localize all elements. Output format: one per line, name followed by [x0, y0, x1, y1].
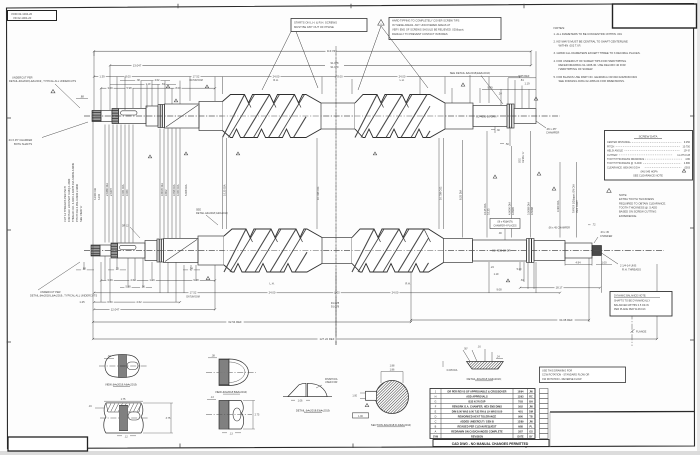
upper screw end shaft [514, 109, 536, 124]
svg-text:R.H. THREADS: R.H. THREADS [622, 267, 641, 271]
svg-text:.72: .72 [592, 224, 596, 227]
detail D [219, 401, 229, 430]
svg-text:BALANCED WITHIN 0.5 OZ-IN: BALANCED WITHIN 0.5 OZ-IN [614, 304, 649, 307]
dim arrow ticks [93, 50, 95, 52]
lower screw relief rings [157, 239, 164, 262]
svg-text:VOID 02-1004-20: VOID 02-1004-20 [11, 12, 33, 16]
svg-text:10/94: 10/94 [518, 390, 525, 393]
svg-text:ADDED UNDERCUT / GEN B: ADDED UNDERCUT / GEN B [460, 420, 494, 423]
detail E dome [288, 383, 306, 396]
leaders from hard tipping note [358, 26, 381, 90]
svg-text:1.75: 1.75 [121, 398, 126, 401]
border zone tick marks [7, 117, 12, 119]
lower screw end shaft [565, 243, 592, 258]
svg-text:3.240: 3.240 [98, 193, 101, 200]
svg-text:R.H.: R.H. [405, 282, 411, 286]
svg-text:DETAIL &#x2018;E&#x2019;: DETAIL &#x2018;E&#x2019; [296, 408, 331, 412]
svg-text:STARTS ON L.H. & R.H. SCREWS: STARTS ON L.H. & R.H. SCREWS [294, 20, 337, 24]
svg-text:.81: .81 [520, 279, 524, 282]
svg-text:2.75: 2.75 [255, 414, 260, 417]
svg-text:3.09: 3.09 [107, 86, 113, 90]
svg-text:4.060 DIA: 4.060 DIA [176, 184, 180, 196]
upper screw spline block 1 [92, 111, 101, 122]
svg-text:CAD DWG - NO MANUAL CHANGES: CAD DWG - NO MANUAL CHANGES PERMITTED [452, 442, 529, 446]
upper dim row 2 [110, 83, 176, 85]
svg-text:USED FOR: USED FOR [325, 381, 338, 384]
svg-text:10.750: 10.750 [683, 145, 691, 148]
upper screw shaft seg 5 [146, 106, 158, 126]
svg-text:.88: .88 [82, 267, 86, 271]
svg-text:VERY END OF SCREWS SHOULD BE R: VERY END OF SCREWS SHOULD BE RELIEVED .0… [392, 27, 464, 31]
svg-text:.06 x 45°: .06 x 45° [546, 127, 557, 131]
svg-text:12.047: 12.047 [111, 307, 120, 311]
between-screw extension lines [104, 125, 106, 243]
svg-text:8.00: 8.00 [337, 75, 343, 79]
svg-text:5.98: 5.98 [126, 86, 132, 90]
svg-text:4.680: 4.680 [684, 162, 691, 165]
svg-text:CHAMFER 4 PLACES: CHAMFER 4 PLACES [494, 225, 517, 228]
svg-text:ADD APPROVALS: ADD APPROVALS [466, 395, 488, 398]
upper screw centerline overlay [84, 115, 560, 117]
svg-text:24.00: 24.00 [399, 75, 406, 79]
svg-text:RADIALLY TO PREVENT CONTACT IN: RADIALLY TO PREVENT CONTACT IN BORES [392, 32, 448, 36]
svg-text:CHAMFER: CHAMFER [546, 131, 559, 135]
svg-text:4.62: 4.62 [130, 278, 136, 282]
svg-text:19°-8': 19°-8' [684, 150, 691, 153]
upper screw rings right [507, 104, 514, 128]
svg-text:.81: .81 [161, 83, 165, 86]
svg-text:SCREW DATA: SCREW DATA [639, 135, 658, 139]
dim 127.22 REF [93, 338, 657, 340]
bottom-left empty box [8, 437, 88, 451]
svg-text:USE THIS DRAWING FOR: USE THIS DRAWING FOR [542, 370, 572, 373]
svg-text:3.125 DIA: 3.125 DIA [483, 203, 487, 215]
upper screw marked shaft [473, 106, 507, 127]
svg-text:CUT 12 THREADS PER INCH: CUT 12 THREADS PER INCH [63, 186, 67, 222]
svg-text:11/93: 11/93 [518, 395, 525, 398]
lower screw body right [444, 239, 473, 263]
svg-text:1.00: 1.00 [601, 260, 607, 264]
svg-text:5.98: 5.98 [125, 284, 131, 288]
svg-text:1.19: 1.19 [146, 83, 151, 86]
svg-text:6.00: 6.00 [107, 300, 113, 304]
svg-text:7/93: 7/93 [518, 400, 523, 403]
svg-text:6/88: 6/88 [518, 425, 523, 428]
svg-text:1.19: 1.19 [149, 278, 155, 282]
svg-text:3.75: 3.75 [166, 417, 171, 420]
lower screw flight section 1 [224, 229, 322, 272]
svg-text:REWORKED HEAT TOLERANCE: REWORKED HEAT TOLERANCE [458, 415, 497, 418]
svg-text:VIEW &#x2018;B&#x2019;: VIEW &#x2018;B&#x2019; [215, 390, 247, 394]
svg-text:L.H.: L.H. [270, 282, 275, 286]
svg-text:MUST BE 180° OUT OF PHASE: MUST BE 180° OUT OF PHASE [294, 25, 334, 29]
dynamic balance note box [610, 292, 672, 317]
svg-text:1.88: 1.88 [390, 364, 395, 367]
svg-text:.06: .06 [141, 284, 145, 288]
svg-text:17.52: 17.52 [193, 75, 200, 79]
svg-text:CUTTER: CUTTER [607, 154, 617, 157]
svg-text:G: G [435, 400, 437, 403]
svg-text:NOTES:: NOTES: [554, 26, 566, 30]
svg-text:3.8035 DIA: 3.8035 DIA [160, 183, 164, 196]
lower screw rings right [527, 239, 535, 263]
svg-text:EXPERIENCE.: EXPERIENCE. [619, 214, 637, 218]
svg-text:24.00: 24.00 [392, 291, 399, 295]
svg-text:DIM 8.00 WAS 9.00 7.82 RH & LH: DIM 8.00 WAS 9.00 7.82 RH & LH WAS 8.00 [452, 410, 503, 413]
svg-text:10.708 O.D.: 10.708 O.D. [316, 186, 320, 200]
upper screw flight section 2 [355, 95, 445, 138]
svg-text:UNDERCUT PER: UNDERCUT PER [12, 75, 33, 79]
svg-text:1.00: 1.00 [352, 395, 357, 398]
svg-text:2 1/4-14 UNS: 2 1/4-14 UNS [620, 264, 636, 268]
svg-text:8.25 DIA: 8.25 DIA [458, 190, 462, 200]
svg-text:.50: .50 [505, 143, 509, 146]
vertical extension lines above upper screw [93, 51, 95, 110]
svg-text:NOTE:: NOTE: [619, 193, 627, 197]
svg-text:2.9480 DIA: 2.9480 DIA [105, 183, 109, 196]
svg-text:REWORK O.A. CHAMFER, HEX END D: REWORK O.A. CHAMFER, HEX END DIMS [452, 405, 502, 408]
svg-text:TOOTH THICKNESS @ .5 ADD: TOOTH THICKNESS @ .5 ADD [607, 162, 642, 165]
lower screw spline block 2 [111, 243, 118, 258]
svg-text:.24: .24 [189, 267, 193, 271]
svg-text:0.005 DIA: 0.005 DIA [447, 369, 458, 372]
svg-text:HARDTIPPING OF SCREW.: HARDTIPPING OF SCREW. [559, 67, 594, 71]
svg-text:.03 x 45: .03 x 45 [600, 231, 610, 234]
svg-text:5.25 REF: 5.25 REF [519, 74, 530, 78]
svg-text:EXTRA TOOTH THICKNESS: EXTRA TOOTH THICKNESS [619, 197, 654, 201]
svg-text:CHAMFER: CHAMFER [600, 235, 613, 238]
svg-text:SHAFTS TO BE DYNAMICALLY: SHAFTS TO BE DYNAMICALLY [614, 300, 650, 303]
svg-text:SEE DETAIL &#x2018;E&#x2019;: SEE DETAIL &#x2018;E&#x2019; [450, 71, 491, 75]
dim line 13.047 / 91.078 [110, 64, 531, 66]
svg-text:1. ALL DIAMETERS TO BE CONCENT: 1. ALL DIAMETERS TO BE CONCENTRIC WITHIN… [554, 32, 623, 36]
svg-text:THREAD O.D. 3.3415-1.33075 DIA: THREAD O.D. 3.3415-1.33075 DIA 3.8639-3.… [71, 162, 75, 222]
svg-text:PER FOOT: PER FOOT [576, 200, 579, 213]
svg-text:.38: .38 [136, 79, 140, 82]
svg-text:91.079: 91.079 [331, 65, 339, 69]
dim 64.08 REF [411, 319, 589, 321]
svg-text:HELIX ANGLE: HELIX ANGLE [607, 150, 623, 153]
svg-text:4.62: 4.62 [155, 79, 160, 82]
svg-text:2. KEYWAYS MUST BE CENTRAL TO: 2. KEYWAYS MUST BE CENTRAL TO SHAFT CENT… [554, 39, 629, 43]
svg-text:VD 02-1004-20: VD 02-1004-20 [13, 16, 32, 20]
svg-text:H: H [435, 395, 437, 398]
svg-text:5. FOR BLANKS USE PART NO. GE4: 5. FOR BLANKS USE PART NO. GE40931G OR #… [554, 75, 638, 79]
upper screw keyway shaft [119, 109, 147, 124]
svg-text:FOR HALF LOCKNUT 3.34Q-1.3300: FOR HALF LOCKNUT 3.34Q-1.3300 [67, 178, 71, 222]
svg-text:.06 x 45 CHAMFER: .06 x 45 CHAMFER [548, 227, 570, 230]
svg-text:127.22 REF: 127.22 REF [320, 337, 335, 341]
svg-text:.88: .88 [80, 95, 84, 99]
bottom-right title block [550, 411, 695, 414]
svg-text:CCW ROTATION - STANDARD FLOW O: CCW ROTATION - STANDARD FLOW OR [542, 374, 590, 377]
svg-text:TOOTH THICKNESS DRAWINGS: TOOTH THICKNESS DRAWINGS [607, 158, 644, 161]
svg-text:WITHIN .002 T.I.R.: WITHIN .002 T.I.R. [559, 43, 582, 47]
hard tipping note box [389, 18, 501, 40]
lower screw marked shaft [473, 240, 527, 261]
svg-text:3. GRIND ALL DIAMETERS EXCEPT: 3. GRIND ALL DIAMETERS EXCEPT THREE TO 3… [554, 51, 641, 55]
svg-text:3.2480 DIA: 3.2480 DIA [94, 188, 97, 200]
svg-text:12/89: 12/89 [518, 420, 525, 423]
lower dim rows left [76, 269, 94, 271]
svg-text:3.998 DIA: 3.998 DIA [172, 184, 176, 196]
svg-text:DR 12: DR 12 [122, 226, 129, 228]
VOID label box top-left [8, 11, 57, 21]
svg-text:24.00: 24.00 [269, 291, 276, 295]
svg-text:SEE CLEARANCE NOTE: SEE CLEARANCE NOTE [633, 174, 663, 178]
svg-text:L.H.: L.H. [400, 78, 405, 82]
vertical extension lines below lower screw [83, 262, 85, 270]
svg-text:PER PLANE PER W-08.013: PER PLANE PER W-08.013 [614, 308, 646, 311]
svg-text:BY: BY [529, 436, 533, 438]
svg-text:3.09: 3.09 [107, 278, 113, 282]
upper keyway slot [121, 111, 138, 115]
svg-text:.30: .30 [496, 129, 500, 132]
svg-text:64.08 REF: 64.08 REF [559, 318, 573, 322]
svg-text:DETAIL &#x2018;G&#x2019;: DETAIL &#x2018;G&#x2019; [467, 377, 502, 381]
svg-text:3.123: 3.123 [486, 208, 490, 215]
lower screw spline block 1 [91, 245, 100, 256]
svg-text:REVISED PER CLEAN REQUEST: REVISED PER CLEAN REQUEST [458, 425, 497, 428]
dim 62.54 REF [93, 321, 411, 323]
svg-text:DYNAMIC BALANCE NOTE:: DYNAMIC BALANCE NOTE: [614, 295, 647, 298]
svg-text:5/92: 5/92 [518, 405, 523, 408]
svg-text:4. FOR UNDERCUT OF SCREW TIPS: 4. FOR UNDERCUT OF SCREW TIPS FOR HARDTI… [554, 59, 627, 63]
svg-text:3.400 DIA: 3.400 DIA [556, 200, 560, 212]
svg-text:DETAIL &#x2018;L&#x2019;, TYPI: DETAIL &#x2018;L&#x2019;, TYPICAL ALL UN… [30, 294, 97, 298]
svg-text:GS: GS [529, 430, 533, 433]
svg-text:DETAIL &#x2018;C&#x2019;: DETAIL &#x2018;C&#x2019; [196, 212, 228, 215]
svg-text:8.00: 8.00 [175, 86, 181, 90]
svg-text:.04 X 45° CHAMFER: .04 X 45° CHAMFER [8, 138, 32, 142]
screw data table [605, 131, 693, 181]
svg-text:DR PER REV B OF APPROVABLE & C: DR PER REV B OF APPROVABLE & CROSSOVER [448, 390, 507, 393]
lower keyway slot [120, 245, 137, 249]
leader from phase note [262, 32, 291, 91]
svg-text:VIEW &#x2018;A&#x2019;: VIEW &#x2018;A&#x2019; [105, 382, 137, 386]
svg-text:PL: PL [529, 425, 533, 428]
datum centerline vertical [335, 46, 337, 345]
svg-text:BH: BH [529, 400, 533, 403]
view A [105, 355, 139, 378]
svg-text:.25: .25 [115, 267, 119, 271]
svg-text:B32 N 7/0 EXP: B32 N 7/0 EXP [469, 400, 486, 403]
upper screw flight section 1 [223, 95, 322, 138]
use this drawing box [540, 367, 626, 383]
upper screw taper shaft [165, 104, 200, 128]
blank stamp box top-right [613, 4, 697, 28]
svg-text:3.5088: 3.5088 [530, 207, 534, 215]
lower screw shaft seg right [534, 241, 565, 261]
labels above lower screw right [490, 219, 520, 229]
warning triangle top [378, 20, 385, 26]
svg-text:9.08: 9.08 [193, 278, 199, 282]
svg-text:.38: .38 [211, 355, 215, 358]
lower screw shaft seg 2 [100, 245, 111, 256]
svg-text:IN THESE AREAS. ANY UNCOVERED: IN THESE AREAS. ANY UNCOVERED AREAS AT [392, 23, 451, 27]
upper screw body right [445, 103, 473, 129]
svg-text:4.0000 DIA: 4.0000 DIA [507, 202, 511, 215]
svg-text:10.708 O.D.: 10.708 O.D. [439, 186, 443, 200]
svg-text:TB: TB [529, 415, 532, 418]
svg-text:REDRAWN ON CAD/CHANGED COMPLET: REDRAWN ON CAD/CHANGED COMPLETE [451, 430, 503, 433]
svg-text:4/91: 4/91 [518, 410, 523, 413]
lower screw taper shaft [164, 239, 199, 263]
phase note box [291, 19, 367, 32]
svg-text:FLANGE: FLANGE [636, 330, 647, 334]
lower screw threaded tip [592, 246, 602, 256]
view B [219, 359, 229, 386]
svg-text:.24: .24 [490, 266, 494, 269]
svg-text:BOTH SHAFTS: BOTH SHAFTS [14, 142, 32, 146]
svg-text:1.00: 1.00 [358, 415, 363, 418]
svg-text:D: D [435, 415, 437, 418]
flange centerline [631, 303, 633, 346]
svg-text:1.19: 1.19 [494, 273, 499, 276]
svg-text:1.39: 1.39 [99, 75, 105, 79]
svg-text:18.17: 18.17 [556, 286, 563, 290]
svg-text:CLEARANCE .680/.040 G/D #: CLEARANCE .680/.040 G/D # [607, 166, 640, 169]
svg-text:4.80: 4.80 [685, 158, 690, 161]
lower screw mid shaft [322, 238, 352, 264]
svg-text:SYM: SYM [433, 436, 438, 438]
svg-text:BASED ON SCREW CUTTING: BASED ON SCREW CUTTING [619, 210, 656, 214]
svg-text:PITCH DIA 3.052-3.0900 2.3800: PITCH DIA 3.052-3.0900 2.3800 [75, 183, 79, 222]
svg-text:62.54 REF: 62.54 REF [228, 320, 242, 324]
svg-text:REVISION: REVISION [471, 435, 483, 438]
svg-text:13.047: 13.047 [133, 63, 142, 67]
svg-text:.34: .34 [107, 355, 111, 358]
svg-text:24.00: 24.00 [273, 75, 280, 79]
left long extension [92, 110, 94, 339]
extra check column [540, 389, 549, 394]
svg-text:G2-4056-26 ORN: G2-4056-26 ORN [476, 114, 496, 118]
svg-text:DATUM DIM: DATUM DIM [189, 79, 202, 82]
dim line 113.33 [94, 50, 531, 52]
detail C [104, 403, 144, 433]
svg-text:3.060: 3.060 [125, 189, 129, 196]
upper screw shaft seg 2 [101, 111, 112, 122]
svg-text:5.008 DIA: 5.008 DIA [184, 184, 188, 196]
svg-text:5.125 DIA: 5.125 DIA [222, 184, 226, 196]
lower screw body left [198, 236, 224, 265]
upper dim row 1 [94, 76, 336, 78]
svg-text:3.802: 3.802 [164, 189, 168, 196]
svg-text:91.078: 91.078 [331, 301, 340, 305]
svg-text:.81: .81 [520, 78, 524, 82]
svg-text:9.08: 9.08 [496, 288, 502, 292]
svg-text:DM: DM [529, 410, 533, 413]
svg-text:2.940?: 2.940? [109, 188, 113, 196]
svg-text:.040/.045 HGPA: .040/.045 HGPA [640, 170, 658, 173]
svg-text:91.078: 91.078 [331, 305, 340, 309]
svg-text:.24: .24 [498, 92, 502, 96]
svg-text:9/90: 9/90 [518, 415, 523, 418]
datum vertical between screws [335, 50, 337, 345]
svg-text:SEE FORGING DWG 02-4056-04 FOR: SEE FORGING DWG 02-4056-04 FOR DIMENSION… [559, 79, 625, 83]
svg-text:2/87: 2/87 [518, 430, 523, 433]
svg-text:CW ROTATION - REVERSE FLOW: CW ROTATION - REVERSE FLOW [542, 378, 582, 381]
svg-text:8.00: 8.00 [334, 291, 340, 295]
svg-text:5.20: 5.20 [517, 268, 522, 271]
svg-text:11.275 # 28: 11.275 # 28 [677, 154, 690, 157]
revision table [430, 389, 535, 439]
upper dim row 1b [120, 80, 170, 82]
svg-text:UNDERCUT PER: UNDERCUT PER [40, 290, 61, 294]
upper screw relief rings [158, 105, 165, 128]
svg-text:3.061 DIA: 3.061 DIA [121, 184, 125, 196]
lower screw flight section 2 [352, 229, 444, 272]
svg-text:50°: 50° [464, 347, 468, 350]
detail G [467, 362, 504, 370]
svg-text:4.62: 4.62 [136, 300, 142, 304]
svg-text:1.25: 1.25 [79, 300, 85, 304]
svg-text:SEE VIEW 'A': SEE VIEW 'A' [79, 205, 83, 222]
svg-text:3.5068 DIA: 3.5068 DIA [526, 202, 530, 215]
svg-text:1.86: 1.86 [390, 368, 395, 371]
lower screw centerline [84, 250, 664, 252]
svg-text:REFER DRAWING 91-1005-30. USE: REFER DRAWING 91-1005-30. USE DELCRO 40 … [559, 63, 626, 67]
svg-text:1.06: 1.06 [298, 399, 303, 402]
thread leader [602, 253, 619, 264]
svg-text:C: C [435, 420, 437, 423]
svg-text:RC: RC [529, 395, 533, 398]
svg-text:TOOTH THICKNESS @ .5 ADD: TOOTH THICKNESS @ .5 ADD [619, 206, 657, 210]
svg-text:.0003: .0003 [684, 166, 691, 169]
upper screw spline block 2 [112, 109, 119, 124]
svg-text:R.H.: R.H. [273, 78, 278, 82]
svg-text:REQUIRED TO OBTAIN CLEARANCE.: REQUIRED TO OBTAIN CLEARANCE. [619, 201, 666, 205]
upper dim row 3 [101, 87, 215, 89]
svg-text:113.33: 113.33 [327, 49, 336, 53]
lower screw centerline overlay [84, 250, 664, 252]
upper screw centerline [84, 115, 560, 117]
svg-text:SECTION &#x2018;D-D&#x2019;: SECTION &#x2018;D-D&#x2019; [371, 423, 411, 427]
svg-text:.06 x 45&#176;: .06 x 45&#176; [497, 221, 514, 224]
svg-text:8.00: 8.00 [125, 75, 131, 79]
svg-text:17.52: 17.52 [190, 291, 197, 295]
upper screw mid shaft [321, 103, 355, 129]
svg-text:HARD TIPPING TO COMPLETELY COV: HARD TIPPING TO COMPLETELY COVER SCREW T… [392, 19, 460, 23]
svg-text:PITCH: PITCH [607, 145, 615, 148]
svg-text:DETAIL &#x2018;L&#x2019;, TYPI: DETAIL &#x2018;L&#x2019;, TYPICAL ALL UN… [9, 79, 76, 83]
svg-text:CENTER DISTANCE: CENTER DISTANCE [607, 141, 630, 144]
svg-text:91.078: 91.078 [331, 61, 339, 65]
lower screw keyway shaft [118, 243, 146, 258]
svg-text:DATE: DATE [517, 435, 524, 438]
svg-text:9.250: 9.250 [684, 141, 691, 144]
svg-text:9.89: 9.89 [487, 85, 493, 89]
svg-text:DATUM DIM: DATUM DIM [186, 295, 199, 298]
tooth note with triangle [607, 189, 612, 193]
svg-text:4.94: 4.94 [575, 260, 581, 264]
upper screw body left [199, 102, 223, 131]
cad banner [433, 440, 549, 447]
svg-text:1.19: 1.19 [524, 82, 530, 86]
lower screw shaft seg 5 [145, 241, 157, 261]
svg-text:DETAIL 'E': DETAIL 'E' [522, 151, 525, 163]
chamfer leader upper right [536, 121, 546, 128]
svg-text:4.9995: 4.9995 [511, 207, 515, 215]
